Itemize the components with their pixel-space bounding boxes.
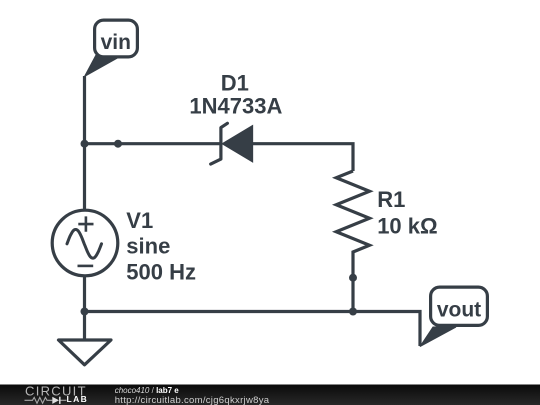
svg-text:10 kΩ: 10 kΩ [377,213,437,238]
wire V1 bottom to ground [83,276,86,339]
label D1 [221,71,249,96]
wire top horizontal [85,142,222,145]
label 1N4733A [189,93,282,118]
wire right vertical top (to R1) [252,144,353,171]
node dot ground junction (84.5,311.5) [81,308,89,316]
svg-text:vout: vout [437,298,481,321]
voltage source V1 [52,210,118,276]
wire bottom horizontal [85,312,421,347]
node junction dot A (84.5,143.7) [81,140,89,148]
node dot vout junction (353,311.5) [349,308,357,316]
svg-text:vin: vin [101,31,131,54]
footer url [115,395,270,405]
flag vout [420,287,487,346]
wire R1 to bottom rail [351,278,354,312]
label 10 kOhm [377,213,437,238]
svg-text:1N4733A: 1N4733A [189,93,282,118]
flag vin [85,20,138,76]
label R1 [377,187,405,212]
footer logo CIRCUIT LAB [25,383,89,404]
wire vin vertical (flag anchor to V1 top) [83,76,86,210]
label 500 Hz [126,260,196,285]
node dot B (118,143.7) [114,140,122,148]
zener diode D1 [211,123,253,164]
svg-text:D1: D1 [221,71,249,96]
label V1 [126,208,153,233]
svg-text:sine: sine [126,233,170,258]
svg-text:http://circuitlab.com/cjg6qkxr: http://circuitlab.com/cjg6qkxrjw8ya [115,395,270,405]
svg-text:LAB: LAB [67,394,89,404]
label sine [126,233,170,258]
svg-text:R1: R1 [377,187,405,212]
footer bar [0,385,540,405]
svg-text:500 Hz: 500 Hz [126,260,196,285]
svg-text:V1: V1 [126,208,153,233]
footer credit line [115,386,180,395]
node dot R1 bottom (353,277.7) [349,274,357,282]
resistor R1 [336,171,369,278]
ground [59,340,112,365]
